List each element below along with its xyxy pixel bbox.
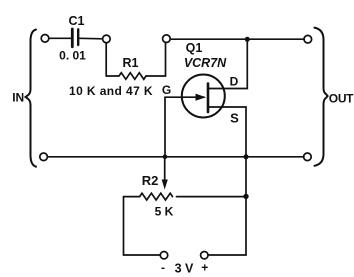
svg-text:Q1: Q1 bbox=[186, 41, 203, 55]
brace OUT bbox=[315, 28, 328, 166]
node drain junction bbox=[245, 37, 250, 42]
svg-text:G: G bbox=[162, 83, 171, 97]
resistor R1 bbox=[106, 73, 165, 80]
terminal R1 top bbox=[163, 35, 171, 43]
node R2 right junction bbox=[243, 194, 248, 199]
capacitor C1 bbox=[72, 29, 78, 47]
potentiometer R2 bbox=[140, 193, 173, 200]
terminal battery plus bbox=[201, 252, 208, 259]
svg-text:-: - bbox=[161, 261, 165, 275]
wire drain bbox=[208, 39, 247, 88]
wire top rail bbox=[171, 38, 305, 40]
wire IN+ to C1 bbox=[49, 37, 71, 39]
svg-text:R1: R1 bbox=[123, 56, 139, 70]
brace IN bbox=[26, 30, 37, 167]
wire bottom rail bbox=[48, 156, 304, 158]
transistor Q1 bbox=[165, 75, 225, 118]
svg-text:C1: C1 bbox=[69, 14, 85, 28]
wire C1 to terminal bbox=[80, 37, 103, 40]
node gate junction bbox=[163, 155, 168, 160]
node source junction bbox=[244, 154, 249, 159]
svg-text:R2: R2 bbox=[142, 173, 159, 188]
label battery bbox=[161, 261, 208, 276]
svg-text:D: D bbox=[230, 75, 239, 89]
svg-text:3 V: 3 V bbox=[175, 262, 194, 276]
svg-text:0. 01: 0. 01 bbox=[59, 49, 86, 63]
terminal OUT- bbox=[304, 153, 312, 161]
wire gate down bbox=[164, 97, 166, 157]
terminal IN- bbox=[40, 153, 48, 161]
svg-text:5 K: 5 K bbox=[155, 205, 174, 219]
terminal C1 out bbox=[103, 35, 111, 43]
wire down to R1 bbox=[105, 43, 107, 76]
svg-text:10 K and 47 K: 10 K and 47 K bbox=[69, 84, 153, 98]
svg-text:VCR7N: VCR7N bbox=[184, 56, 227, 70]
wire R1 up to terminal bbox=[165, 43, 167, 76]
terminal battery minus bbox=[160, 252, 167, 259]
wire battery plus to rail bbox=[208, 157, 246, 255]
wire source bbox=[208, 107, 246, 157]
terminal IN+ bbox=[41, 35, 49, 43]
wiper arrow R2 bbox=[162, 157, 168, 190]
terminal OUT+ bbox=[304, 35, 312, 43]
svg-text:+: + bbox=[201, 261, 208, 275]
svg-text:OUT: OUT bbox=[329, 92, 354, 106]
wire R2 left to battery bbox=[124, 197, 161, 255]
wire R2 right bbox=[177, 196, 247, 198]
svg-text:IN: IN bbox=[12, 90, 24, 104]
svg-text:S: S bbox=[230, 111, 239, 126]
